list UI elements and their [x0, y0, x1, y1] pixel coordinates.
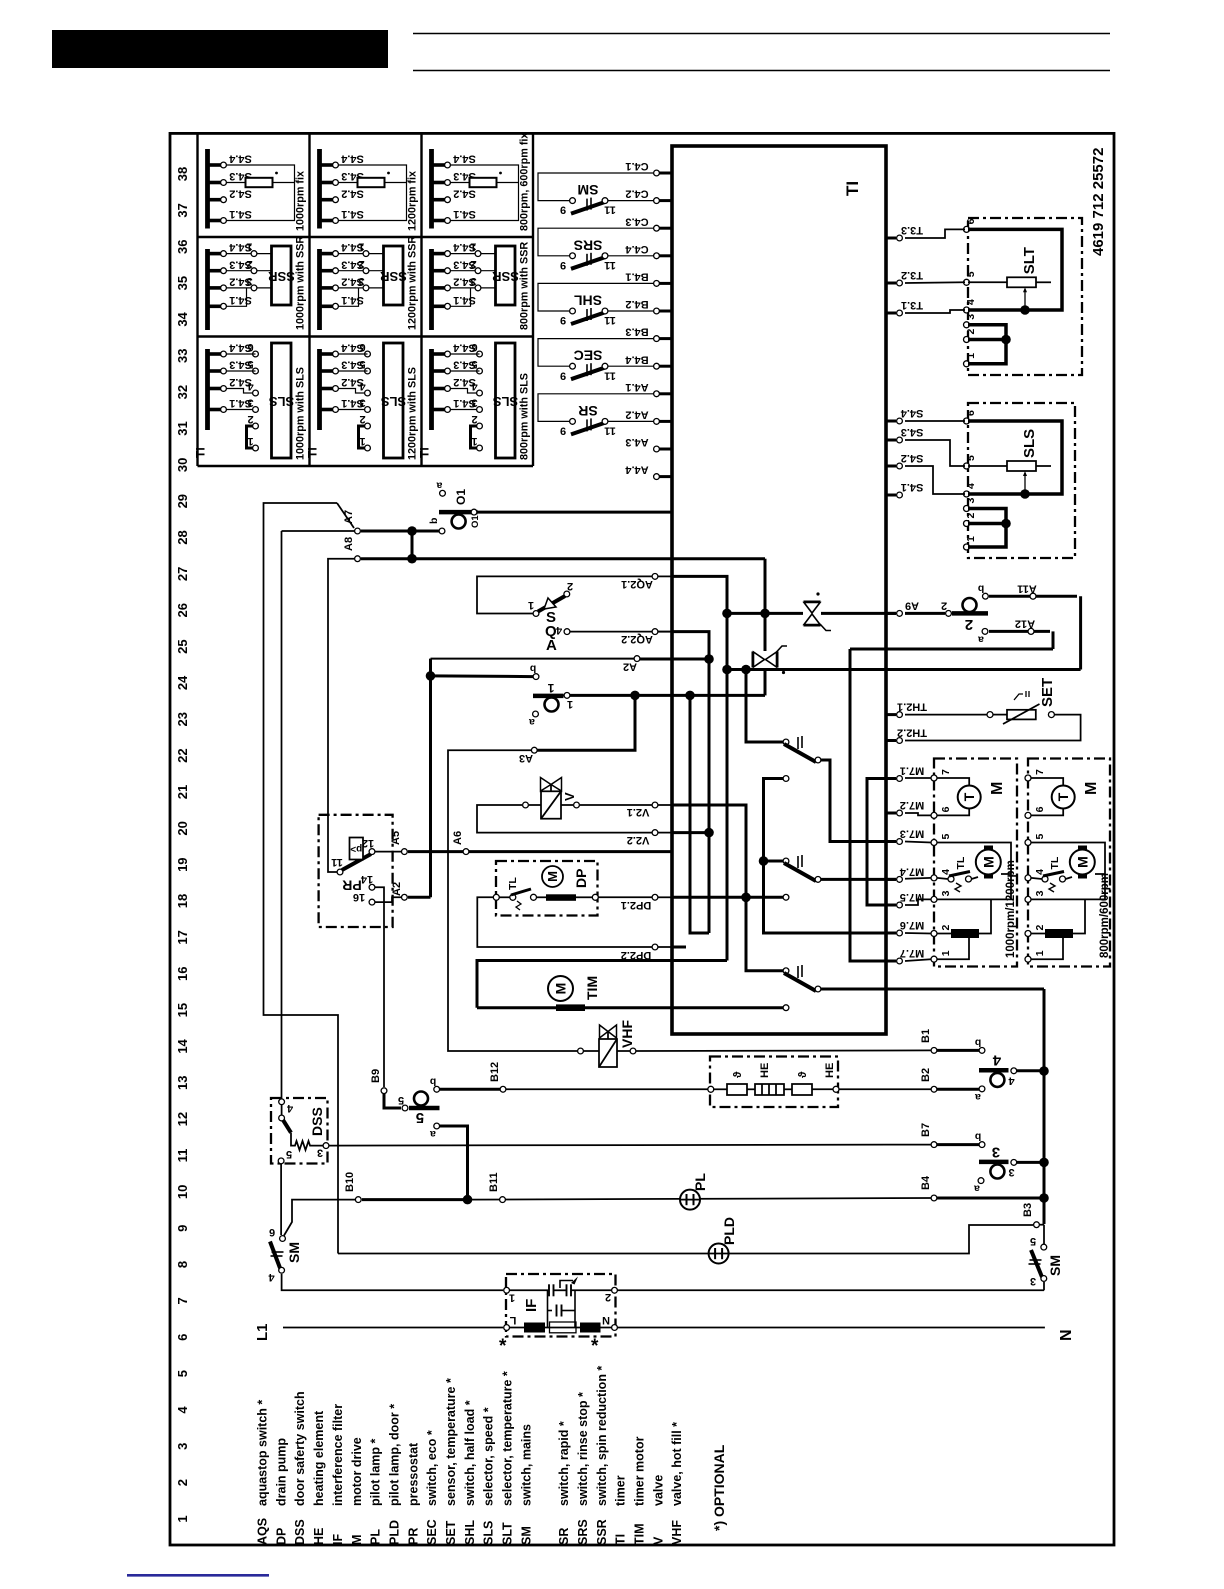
wires M7.x to module1	[905, 777, 931, 779]
svg-text:28: 28	[175, 530, 190, 544]
pin B11	[500, 1197, 506, 1203]
svg-text:5: 5	[398, 1094, 404, 1106]
svg-text:1200rpm with SSR: 1200rpm with SSR	[407, 236, 419, 330]
svg-text:M: M	[553, 983, 569, 995]
DSS pin 4	[279, 1099, 285, 1105]
svg-text:S4.4: S4.4	[900, 407, 924, 419]
svg-text:1: 1	[940, 950, 952, 956]
wire DSS3-B7 line y=1145	[329, 1145, 932, 1146]
svg-text:4: 4	[175, 1406, 190, 1414]
TI pin C4.1	[657, 172, 673, 175]
svg-text:2: 2	[965, 329, 977, 335]
pin A8	[355, 556, 361, 562]
svg-text:HE: HE	[824, 1063, 836, 1078]
TI pin A4.4	[657, 475, 673, 478]
svg-text:A4.4: A4.4	[625, 464, 649, 476]
TI pin M7.6	[886, 932, 896, 935]
svg-text:2: 2	[246, 258, 252, 270]
svg-text:B3: B3	[1022, 1203, 1034, 1217]
svg-text:C4.4: C4.4	[625, 243, 649, 255]
svg-text:TI: TI	[306, 447, 320, 458]
svg-text:TL: TL	[955, 856, 967, 869]
svg-text:SLT: SLT	[501, 1522, 515, 1545]
svg-text:PLD: PLD	[387, 1520, 401, 1545]
svg-text:A12: A12	[1015, 618, 1035, 630]
svg-text:aquastop switch *: aquastop switch *	[256, 1400, 270, 1506]
svg-text:3: 3	[359, 397, 365, 409]
svg-text:5: 5	[175, 1370, 190, 1377]
svg-text:TL: TL	[1049, 856, 1061, 869]
svg-text:PL: PL	[692, 1173, 708, 1191]
variant cell row1 col1: 1000rpm fix	[205, 149, 210, 229]
svg-text:SSR: SSR	[268, 269, 295, 284]
wires S4.x to SLS	[905, 420, 965, 422]
tacho T	[1031, 778, 1063, 786]
svg-text:7: 7	[940, 769, 952, 775]
DP motor M	[542, 866, 563, 887]
svg-text:switch, mains: switch, mains	[519, 1424, 533, 1506]
svg-text:PR: PR	[342, 877, 361, 893]
svg-text:SLS: SLS	[482, 1521, 496, 1545]
svg-text:b: b	[430, 1076, 436, 1088]
svg-text:A5: A5	[390, 831, 402, 845]
svg-text:TI: TI	[843, 181, 862, 196]
svg-text:N: N	[1058, 1329, 1075, 1341]
svg-text:16: 16	[353, 891, 365, 903]
TI pin S4.4	[886, 420, 896, 423]
wire x=850 to M7.7	[850, 649, 896, 961]
svg-text:B4: B4	[920, 1175, 932, 1190]
motor module 800rpm/600rpm (dash-dot box)	[1028, 759, 1110, 967]
pin B7	[931, 1142, 937, 1148]
svg-text:S4.1: S4.1	[453, 294, 476, 306]
svg-text:S4.1: S4.1	[341, 294, 364, 306]
svg-text:interference filter: interference filter	[331, 1404, 345, 1506]
pin A2 (PR)	[402, 894, 408, 900]
svg-text:SEC: SEC	[574, 348, 603, 364]
svg-text:S: S	[546, 609, 556, 626]
svg-text:33: 33	[175, 349, 190, 363]
svg-text:6: 6	[471, 341, 477, 353]
PR pin 14	[369, 884, 375, 890]
svg-text:17: 17	[175, 930, 190, 944]
pin B10	[355, 1197, 361, 1203]
wire A11 line y=669.5	[727, 668, 1081, 671]
wire B10/B11-PL-B4 line y=1199.6	[362, 1198, 464, 1201]
svg-text:PLD: PLD	[721, 1217, 737, 1245]
svg-text:switch, rinse stop *: switch, rinse stop *	[576, 1392, 590, 1506]
motor module 1000rpm/1200rpm (dash-dot box)	[934, 759, 1017, 967]
svg-text:PR: PR	[406, 1528, 420, 1545]
variant cell row3 col3: 800rpm with SLS	[429, 349, 434, 430]
decorative blue line	[127, 1574, 269, 1577]
svg-text:1000rpm with SLS: 1000rpm with SLS	[295, 367, 307, 460]
svg-text:b: b	[978, 583, 984, 595]
svg-text:5: 5	[286, 1148, 292, 1160]
svg-text:4: 4	[359, 380, 366, 392]
pin B4	[931, 1195, 937, 1201]
wire B9 to switch5	[384, 1094, 401, 1108]
svg-text:TIM: TIM	[633, 1523, 647, 1545]
wire PR12 to A5	[375, 851, 401, 853]
DSS pin 5	[278, 1158, 284, 1164]
svg-text:SSR: SSR	[380, 269, 407, 284]
pin B3	[1034, 1222, 1040, 1228]
switch O1 (options, mains)	[440, 490, 446, 496]
svg-text:SR: SR	[578, 403, 597, 419]
TI pin TH2.2	[886, 739, 896, 742]
svg-text:6: 6	[940, 806, 952, 812]
svg-text:2: 2	[471, 413, 477, 425]
svg-text:31: 31	[175, 421, 190, 435]
svg-text:a: a	[975, 1091, 981, 1103]
svg-text:4: 4	[940, 869, 952, 875]
svg-text:V2.1: V2.1	[627, 806, 650, 818]
svg-text:b: b	[975, 1131, 981, 1143]
switch SM (pins 9-11)	[538, 173, 653, 201]
svg-text:1: 1	[470, 241, 476, 253]
wire DP loop to DP2.2	[477, 897, 652, 947]
timer motor TIM box	[477, 961, 727, 1008]
svg-text:timer motor: timer motor	[633, 1436, 647, 1506]
svg-text:SHL: SHL	[463, 1520, 477, 1545]
svg-text:B4.1: B4.1	[625, 270, 648, 282]
svg-text:*) OPTIONAL: *) OPTIONAL	[711, 1444, 727, 1531]
svg-text:S4.1: S4.1	[453, 208, 476, 220]
svg-text:SM: SM	[286, 1242, 302, 1263]
svg-text:12: 12	[362, 837, 374, 849]
svg-text:SHL: SHL	[574, 292, 602, 308]
wire O1 to TI	[477, 511, 672, 514]
TI pin A4.3	[657, 448, 673, 451]
svg-text:valve, hot fill *: valve, hot fill *	[670, 1422, 684, 1506]
svg-text:4: 4	[268, 1271, 275, 1283]
switch SM (mains, right)	[1043, 1225, 1045, 1244]
svg-text:pilot lamp, door *: pilot lamp, door *	[387, 1404, 401, 1506]
svg-text:selector, temperature *: selector, temperature *	[501, 1371, 515, 1506]
wire a to A12	[989, 630, 1050, 633]
switch SHL (pins 9-11)	[538, 283, 653, 311]
TI pin B4.3	[657, 337, 673, 340]
svg-text:1: 1	[528, 599, 534, 611]
svg-text:B4.3: B4.3	[625, 326, 648, 338]
svg-text:p>: p>	[350, 843, 362, 854]
wire SM4 down to line y=1290	[282, 1274, 503, 1290]
switch SEC (pins 9-11)	[538, 339, 653, 367]
TI pin S4.2	[886, 465, 896, 468]
svg-text:1200rpm fix: 1200rpm fix	[407, 171, 419, 231]
svg-text:11: 11	[331, 856, 343, 868]
heating element HE box	[710, 1057, 838, 1108]
svg-text:VHF: VHF	[619, 1020, 635, 1048]
triac U1 on A9 line	[804, 601, 821, 603]
svg-text:A4.1: A4.1	[625, 381, 648, 393]
TI pin A4.1	[657, 392, 673, 395]
svg-text:heating element: heating element	[312, 1410, 326, 1506]
wire DP to DP2.1	[598, 896, 652, 898]
contact B (to heater bus)	[783, 968, 789, 974]
svg-text:5: 5	[965, 455, 977, 461]
svg-text:7: 7	[175, 1297, 190, 1304]
svg-text:2: 2	[567, 580, 573, 592]
triac U2	[752, 652, 754, 668]
svg-text:S4.1: S4.1	[229, 208, 252, 220]
pin A6	[463, 849, 469, 855]
svg-text:a: a	[978, 634, 984, 646]
svg-text:1: 1	[965, 536, 977, 542]
svg-text:S4.4: S4.4	[340, 153, 364, 165]
pin A3	[531, 747, 537, 753]
svg-text:A11: A11	[1017, 583, 1037, 595]
svg-text:A2: A2	[623, 661, 637, 673]
TI pin S4.3	[886, 439, 896, 442]
svg-text:B1: B1	[920, 1029, 932, 1043]
svg-text:A6: A6	[452, 831, 464, 845]
svg-text:SEC: SEC	[425, 1519, 439, 1545]
pin A5	[402, 849, 408, 855]
switch 3 (eco)	[979, 1142, 985, 1148]
svg-text:13: 13	[175, 1076, 190, 1090]
wire A12 line y=649	[850, 648, 1053, 651]
svg-text:valve: valve	[651, 1475, 665, 1506]
svg-text:4: 4	[471, 380, 478, 392]
switch 1 (O1 mains contact)	[431, 674, 534, 678]
svg-text:15: 15	[175, 1003, 190, 1017]
svg-text:SRS: SRS	[574, 237, 603, 253]
heater bus y=989	[821, 988, 1044, 991]
svg-text:selector, speed *: selector, speed *	[482, 1407, 496, 1506]
svg-text:T3.1: T3.1	[901, 299, 923, 311]
HE element	[755, 1084, 784, 1095]
selector module SLSR (dash-dot box)	[968, 403, 1075, 558]
svg-text:5: 5	[940, 834, 952, 840]
bus x=430 (A7/A8 net)	[429, 659, 432, 898]
pilot lamp PL	[680, 1190, 700, 1210]
pin V2.1	[652, 802, 658, 808]
svg-text:6: 6	[965, 410, 977, 416]
svg-text:S4.4: S4.4	[228, 153, 252, 165]
wire A2 line y=659	[431, 658, 635, 660]
svg-text:pressostat: pressostat	[406, 1442, 420, 1506]
svg-text:800rpm with SSR: 800rpm with SSR	[519, 242, 531, 330]
svg-text:3: 3	[470, 275, 476, 287]
svg-text:S4.1: S4.1	[901, 481, 924, 493]
TI pin C4.3	[657, 227, 673, 230]
svg-text:24: 24	[175, 675, 190, 690]
svg-text:VHF: VHF	[670, 1520, 684, 1545]
motor M	[937, 843, 1011, 900]
wire A7-A8 tie x=412	[361, 530, 442, 533]
svg-text:3: 3	[247, 397, 253, 409]
switch SRS (pins 9-11)	[538, 228, 653, 256]
svg-text:B12: B12	[489, 1062, 501, 1082]
svg-text:S4.2: S4.2	[341, 187, 364, 199]
svg-text:SLS: SLS	[493, 394, 519, 409]
svg-text:AQ2.2: AQ2.2	[621, 633, 653, 645]
svg-text:1: 1	[547, 681, 554, 695]
svg-text:SLS: SLS	[269, 394, 295, 409]
variant cell row2 col3: 800rpm with SSR	[429, 249, 434, 330]
svg-text:5: 5	[359, 358, 365, 370]
svg-text:5: 5	[965, 271, 977, 277]
svg-text:9: 9	[560, 204, 566, 216]
TI pin M7.3	[886, 840, 896, 843]
pin B2	[931, 1086, 937, 1092]
svg-text:1000rpm/1200rpm: 1000rpm/1200rpm	[1005, 860, 1017, 958]
wire A7 riser x=263	[282, 530, 358, 532]
wire TI internal vertical x=765 upper	[764, 559, 767, 614]
svg-text:1: 1	[247, 435, 253, 447]
svg-text:pilot lamp *: pilot lamp *	[369, 1439, 383, 1507]
svg-text:A3: A3	[519, 752, 533, 764]
wire A8 bus to TI (y=558)	[414, 557, 765, 560]
svg-text:8: 8	[175, 1261, 190, 1268]
svg-text:AQ2.1: AQ2.1	[621, 578, 653, 590]
variant cell row2 col2: 1200rpm with SSR	[317, 249, 322, 330]
svg-text:M7.2: M7.2	[900, 799, 924, 811]
wire PR16 to A2	[375, 897, 401, 902]
svg-text:14: 14	[175, 1038, 190, 1053]
svg-text:a: a	[436, 480, 442, 492]
svg-text:M: M	[980, 856, 996, 868]
svg-text:6: 6	[965, 218, 977, 224]
switch SM (mains, left)	[280, 1236, 286, 1242]
wire O1 output line y=695	[570, 694, 765, 697]
svg-text:SLS: SLS	[381, 394, 407, 409]
svg-text:TL: TL	[507, 877, 519, 890]
svg-text:3: 3	[1030, 1275, 1036, 1287]
svg-text:800rpm, 600rpm fix: 800rpm, 600rpm fix	[519, 133, 531, 231]
svg-text:ϑ: ϑ	[797, 1071, 809, 1078]
svg-text:37: 37	[175, 203, 190, 217]
svg-text:6: 6	[247, 341, 253, 353]
svg-text:7: 7	[1034, 769, 1046, 775]
svg-text:C4.1: C4.1	[625, 160, 648, 172]
IF chokes and caps	[524, 1323, 545, 1333]
svg-text:1: 1	[358, 241, 364, 253]
svg-text:1: 1	[965, 353, 977, 359]
svg-text:SM: SM	[578, 182, 599, 198]
svg-text:3: 3	[992, 1144, 1000, 1161]
wire SM6 to B10	[284, 1200, 355, 1236]
svg-text:B9: B9	[370, 1069, 382, 1083]
svg-text:M7.7: M7.7	[900, 947, 924, 959]
svg-text:11: 11	[604, 204, 616, 216]
svg-text:sensor, temperature *: sensor, temperature *	[444, 1378, 458, 1506]
svg-text:T: T	[1055, 792, 1071, 801]
svg-text:O1: O1	[470, 515, 481, 528]
schematic outer frame	[170, 133, 1114, 1545]
svg-text:3: 3	[940, 890, 952, 896]
pin A7	[355, 528, 361, 534]
svg-text:3: 3	[965, 314, 977, 320]
TI pin S4.1	[886, 494, 896, 497]
PR p> sensor	[350, 838, 364, 860]
wire M7.1/M7.5 internal link x=867	[867, 779, 896, 906]
wire HE to B2	[839, 1088, 931, 1090]
svg-text:2: 2	[965, 513, 977, 519]
svg-text:S4.1: S4.1	[341, 208, 364, 220]
svg-text:switch, half load *: switch, half load *	[463, 1400, 477, 1506]
svg-text:29: 29	[175, 494, 190, 508]
variant cell row3 col2: 1200rpm with SLS	[317, 349, 322, 430]
svg-text:SSR: SSR	[595, 1519, 609, 1545]
svg-text:S4.1: S4.1	[229, 294, 252, 306]
svg-text:M: M	[1074, 856, 1090, 868]
svg-text:b: b	[428, 518, 440, 524]
svg-text:3: 3	[1034, 890, 1046, 896]
svg-text:timer: timer	[614, 1475, 628, 1506]
svg-text:TIM: TIM	[584, 976, 600, 1000]
svg-text:SLT: SLT	[1021, 247, 1038, 274]
DP winding	[546, 894, 576, 901]
DSS PTC resistor	[291, 1133, 323, 1150]
pin AQ2.2	[652, 629, 658, 635]
TI pin A4.2	[657, 420, 673, 423]
svg-text:1: 1	[567, 698, 573, 710]
svg-text:a: a	[529, 716, 535, 728]
TI pin T3.3	[886, 237, 896, 240]
interference filter IF box	[506, 1274, 616, 1337]
svg-text:*: *	[499, 1336, 507, 1357]
svg-text:1: 1	[175, 1515, 190, 1522]
svg-text:10: 10	[175, 1185, 190, 1199]
svg-text:S4.2: S4.2	[901, 452, 924, 464]
svg-text:M7.3: M7.3	[900, 828, 924, 840]
svg-text:6: 6	[359, 341, 365, 353]
wire switch5 a to B11 line	[440, 1126, 468, 1200]
svg-text:11: 11	[604, 369, 616, 381]
svg-text:B11: B11	[488, 1172, 500, 1192]
svg-text:TI: TI	[614, 1534, 628, 1545]
svg-text:TH2.1: TH2.1	[897, 701, 927, 713]
svg-text:19: 19	[175, 857, 190, 871]
svg-text:A4.2: A4.2	[625, 408, 648, 420]
PR pin 16	[369, 899, 375, 905]
svg-text:TI: TI	[194, 447, 208, 458]
svg-text:1: 1	[359, 435, 365, 447]
svg-text:32: 32	[175, 385, 190, 399]
svg-text:1200rpm with SLS: 1200rpm with SLS	[407, 367, 419, 460]
motor M	[1031, 843, 1105, 900]
svg-text:TH2.2: TH2.2	[897, 727, 927, 739]
wire b to A11	[989, 595, 1077, 598]
svg-text:C4.2: C4.2	[625, 188, 648, 200]
TI pin C4.4	[657, 254, 673, 257]
switch SR (pins 9-11)	[538, 394, 653, 422]
HE thermal cutout 1	[727, 1084, 747, 1095]
wire IF2 line y=1290 to SM right	[618, 1289, 1045, 1291]
svg-text:PL: PL	[369, 1529, 383, 1545]
TI pin M7.5	[886, 904, 896, 907]
wire AQ2.2 into TI, down x=709	[672, 632, 709, 933]
wire V2.2 into TI	[672, 831, 709, 834]
svg-text:20: 20	[175, 821, 190, 835]
wire A3 riser	[537, 695, 635, 750]
svg-text:M7.1: M7.1	[900, 765, 924, 777]
wire PR14 to B9	[375, 887, 384, 1087]
wire A5 to A6	[408, 850, 463, 853]
svg-text:N: N	[602, 1314, 610, 1326]
svg-text:S4.4: S4.4	[452, 153, 476, 165]
svg-text:1: 1	[246, 241, 252, 253]
svg-text:18: 18	[175, 894, 190, 908]
wire V2.1 into TI, x=746 down	[672, 805, 783, 971]
TI pin B4.4	[657, 365, 673, 368]
svg-text:A9: A9	[905, 599, 919, 611]
svg-text:9: 9	[560, 259, 566, 271]
svg-text:5: 5	[416, 1109, 424, 1126]
